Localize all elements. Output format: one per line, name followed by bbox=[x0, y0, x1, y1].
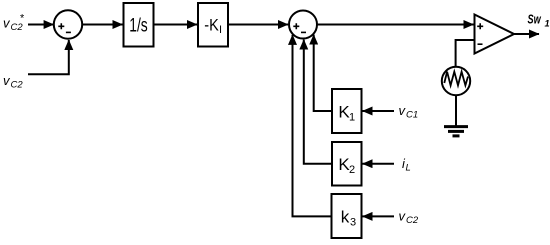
node vC1 (label) bbox=[399, 103, 419, 121]
svg-text:3: 3 bbox=[350, 217, 356, 229]
wire integrator to gain -Ki bbox=[154, 24, 198, 26]
svg-text:Sw: Sw bbox=[528, 11, 542, 26]
wire comparator output Sw1 bbox=[513, 33, 539, 35]
svg-text:k: k bbox=[341, 208, 350, 227]
svg-text:C2: C2 bbox=[406, 215, 419, 226]
node vC2* (reference input label) bbox=[3, 13, 25, 34]
block 1/s (integrator) bbox=[124, 3, 154, 47]
op-amp comparator U1 bbox=[475, 15, 515, 54]
sawtooth generator V1 bbox=[442, 67, 470, 95]
block -Ki (gain) bbox=[198, 3, 228, 47]
wire vC2 into k3 bbox=[363, 215, 395, 217]
block k3 (gain) bbox=[332, 194, 362, 238]
wire vC1 into K1 bbox=[363, 110, 395, 112]
wire K1 output to S2 bbox=[314, 35, 332, 111]
wire sawtooth generator to ground bbox=[455, 95, 457, 126]
svg-text:C2: C2 bbox=[11, 80, 24, 91]
node vC2 (label, lower right) bbox=[399, 209, 419, 227]
svg-text:C1: C1 bbox=[406, 110, 418, 121]
svg-text:L: L bbox=[406, 163, 411, 174]
svg-text:1: 1 bbox=[349, 112, 355, 124]
wire iL into K2 bbox=[363, 163, 395, 165]
svg-text:2: 2 bbox=[349, 164, 355, 176]
block K2 (gain) bbox=[332, 142, 362, 186]
wire -Ki to summing junction S2 bbox=[228, 24, 288, 26]
svg-text:-K: -K bbox=[204, 16, 219, 35]
wire vC2 feedback into S1 minus input bbox=[28, 40, 69, 74]
node vC2 (feedback label) bbox=[3, 73, 23, 91]
node Sw1 (output label) bbox=[528, 11, 550, 28]
svg-text:1: 1 bbox=[545, 18, 550, 28]
svg-text:*: * bbox=[20, 13, 25, 25]
svg-text:1/s: 1/s bbox=[129, 16, 148, 37]
wire S2 to comparator plus input bbox=[317, 24, 474, 26]
ground bbox=[444, 127, 468, 136]
svg-text:I: I bbox=[219, 24, 222, 36]
wire sawtooth generator to comparator minus input bbox=[456, 40, 475, 67]
node iL (label) bbox=[402, 156, 411, 174]
summing junction S2 bbox=[289, 11, 317, 39]
block K1 (gain) bbox=[332, 89, 362, 133]
wire vC2* to summing junction S1 bbox=[28, 24, 54, 26]
summing junction S1 bbox=[54, 10, 82, 38]
wire k3 output to S2 bbox=[293, 35, 332, 217]
wire S1 to integrator bbox=[82, 24, 123, 26]
wire K2 output to S2 bbox=[304, 40, 332, 164]
